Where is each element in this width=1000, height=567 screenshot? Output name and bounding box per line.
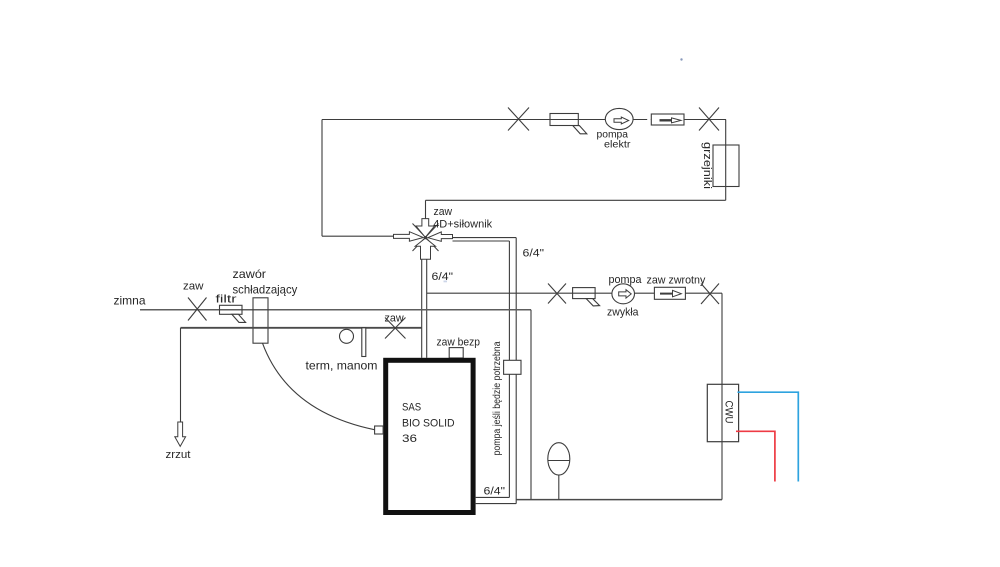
svg-text:36: 36 <box>402 433 417 445</box>
cooling valve <box>253 298 268 343</box>
wire line2 horizontal <box>181 327 422 329</box>
pipe valve-right double horizontal <box>453 237 517 239</box>
boiler SAS BIO SOLID 36 <box>386 360 473 512</box>
check valve zaw zwrotny <box>654 287 685 299</box>
filter F-cold <box>220 305 243 314</box>
svg-text:BIO SOLID: BIO SOLID <box>402 417 455 429</box>
pipe hot water red <box>736 431 775 481</box>
pipe hot water blue <box>738 392 799 481</box>
drain arrow zrzut <box>175 422 186 446</box>
wire right vertical to bottom <box>721 293 723 499</box>
filter F-top spout <box>573 126 587 134</box>
manometer stem <box>362 328 366 357</box>
svg-text:zaw: zaw <box>434 206 453 218</box>
pump placeholder box on drop pipe <box>504 360 521 374</box>
svg-text:pompa: pompa <box>609 274 643 286</box>
svg-text:zimna: zimna <box>114 294 146 308</box>
valve X cold left <box>188 298 207 321</box>
svg-text:pompa jeśli będzie potrzebna: pompa jeśli będzie potrzebna <box>492 341 503 455</box>
svg-text:zawór: zawór <box>233 267 267 281</box>
filter F-mid spout <box>586 299 599 306</box>
svg-text:zaw zwrotny: zaw zwrotny <box>647 275 706 287</box>
pipe valve-bottom double vertical to boiler <box>421 259 423 358</box>
vessel stem <box>558 475 560 500</box>
valve X top-right <box>699 108 719 131</box>
filter F-cold spout <box>232 314 246 322</box>
wire radiator return horizontal <box>426 199 726 201</box>
valve center <box>424 236 427 239</box>
svg-text:elektr: elektr <box>604 139 631 150</box>
check valve top <box>651 114 684 125</box>
svg-text:CWU: CWU <box>723 401 735 424</box>
4-way valve zaw 4D+silownik <box>413 224 439 252</box>
valve arrow right <box>428 232 453 242</box>
svg-text:4D+siłownik: 4D+siłownik <box>433 219 492 231</box>
expansion vessel <box>548 443 570 475</box>
CWU tank <box>707 384 738 441</box>
svg-text:SAS: SAS <box>402 401 421 413</box>
pump pompa zwykla <box>612 284 635 304</box>
valve X mid-right <box>701 284 719 305</box>
valve X top-left (on supply) <box>508 108 529 131</box>
svg-text:6/4": 6/4" <box>432 271 454 283</box>
wire line2 drop to drain <box>180 328 182 422</box>
hose curve from cooling valve to boiler <box>263 343 376 430</box>
wire return drop into valve top <box>425 200 427 219</box>
wire cold water line <box>140 309 531 311</box>
svg-text:term, manom: term, manom <box>306 359 378 373</box>
valve X line2 <box>385 318 406 339</box>
wire top supply horizontal <box>322 119 726 121</box>
svg-text:zaw: zaw <box>183 281 204 293</box>
wire cold water drop <box>530 310 532 500</box>
dot artifact <box>444 281 448 283</box>
wire top loop bottom horizontal to valve <box>322 235 394 237</box>
pipe right drop double vertical <box>508 241 510 497</box>
filter F-mid <box>573 288 596 299</box>
svg-text:6/4": 6/4" <box>523 248 545 260</box>
safety valve <box>449 348 463 358</box>
wire gap before check valve <box>647 116 651 124</box>
boiler bottom outlet pipe double <box>475 496 510 498</box>
valve arrow left <box>394 232 424 242</box>
svg-text:zrzut: zrzut <box>166 449 191 461</box>
svg-text:zaw bezp: zaw bezp <box>437 336 481 348</box>
wire pump line to CWU <box>427 292 722 294</box>
filter F-top <box>550 114 578 126</box>
radiator grzejniki <box>713 145 739 187</box>
valve arrow bottom <box>415 238 435 259</box>
svg-text:zwykła: zwykła <box>607 306 639 318</box>
boiler left stub <box>375 426 384 434</box>
valve arrow top <box>416 219 435 238</box>
wire radiator right vertical <box>725 120 727 201</box>
valve X mid-left <box>548 284 566 304</box>
thermometer circle <box>340 329 354 343</box>
wire top loop left vertical <box>321 120 323 237</box>
pump pompa elektr <box>605 108 633 129</box>
svg-text:grzejniki: grzejniki <box>701 142 713 189</box>
wire bottom return line <box>516 499 722 501</box>
svg-text:6/4": 6/4" <box>484 486 506 498</box>
svg-text:schładzający: schładzający <box>233 282 298 296</box>
